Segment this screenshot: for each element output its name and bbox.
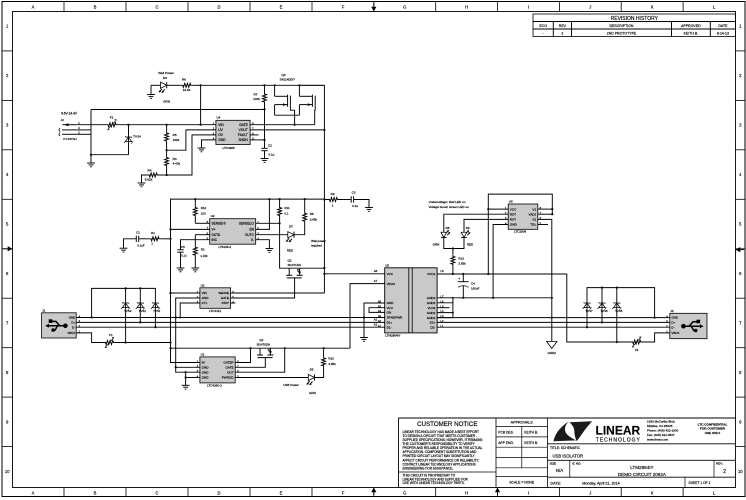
junction: [169, 238, 171, 240]
svg-text:CTL: CTL: [202, 301, 208, 305]
svg-text:R13: R13: [458, 256, 464, 260]
svg-text:R10: R10: [328, 357, 334, 361]
svg-text:R9: R9: [331, 192, 335, 196]
border row ticks: [2, 50, 13, 52]
svg-text:TVS4: TVS4: [133, 135, 141, 139]
svg-text:GND: GND: [671, 316, 677, 320]
wire C3 to gnd: [354, 200, 369, 208]
svg-text:IN: IN: [202, 361, 205, 365]
wire U1 gnd pin2: [176, 366, 200, 368]
size row grid: [548, 476, 736, 478]
svg-text:R3: R3: [173, 157, 177, 161]
svg-text:U4: U4: [217, 116, 221, 120]
svg-text:8-14-13: 8-14-13: [717, 32, 729, 36]
wire U1 PWRGD to D5: [235, 377, 308, 379]
svg-text:D2+: D2+: [430, 321, 436, 325]
svg-text:H: H: [465, 5, 468, 10]
svg-text:A: A: [32, 5, 35, 10]
junction: [185, 376, 187, 378]
resistor R6: [181, 83, 194, 87]
svg-text:S4214DDY: S4214DDY: [280, 78, 295, 82]
wire D6 to R6: [166, 84, 180, 86]
svg-text:LTC4360-2: LTC4360-2: [207, 383, 222, 387]
wire A6 gnd: [364, 303, 385, 338]
svg-text:LTC CONFIDENTIAL: LTC CONFIDENTIAL: [698, 422, 728, 426]
svg-text:TVS3: TVS3: [124, 309, 132, 313]
svg-text:F: F: [342, 491, 345, 496]
svg-text:GND: GND: [69, 316, 75, 320]
junction: [452, 247, 454, 249]
junction: [194, 198, 196, 200]
svg-text:D-: D-: [671, 325, 674, 329]
svg-text:C2: C2: [268, 144, 272, 148]
svg-text:U5: U5: [385, 263, 389, 267]
wire GND2 to J3 rail: [437, 317, 670, 319]
svg-text:GND2: GND2: [548, 351, 557, 355]
resistor R9: [324, 198, 342, 202]
title block outline: [399, 417, 736, 419]
junction: [323, 273, 325, 275]
svg-text:J: J: [589, 5, 591, 10]
junction: [298, 84, 300, 86]
svg-text:SENSEHI: SENSEHI: [212, 222, 226, 226]
wire U6 VCC pin: [488, 208, 508, 210]
svg-text:A7: A7: [374, 279, 378, 283]
svg-text:K: K: [651, 5, 654, 10]
resistor R4: [146, 173, 160, 177]
wire R6 to rail: [193, 84, 201, 86]
junction: [139, 321, 141, 323]
junction: [551, 208, 553, 210]
ground for D6: [150, 85, 152, 94]
wire J2 gnd drop: [76, 129, 91, 131]
junction: [169, 347, 171, 349]
ground for U1: [182, 384, 190, 386]
svg-text:FAULT: FAULT: [238, 133, 248, 137]
svg-text:H: H: [465, 491, 468, 496]
junction: [268, 198, 270, 200]
junction: [169, 292, 171, 294]
svg-text:DEMO CIRCUIT 2092A: DEMO CIRCUIT 2092A: [618, 472, 667, 477]
wire EN riser: [256, 199, 270, 229]
svg-text:LINEAR: LINEAR: [596, 423, 641, 437]
svg-text:SENSELO: SENSELO: [239, 222, 255, 226]
svg-text:USE ONLY: USE ONLY: [705, 431, 721, 435]
wire U1 OUT riser: [235, 348, 285, 372]
center mark bottom: [373, 491, 375, 495]
svg-text:OUTC: OUTC: [245, 233, 255, 237]
op-amp U4 body: [216, 120, 250, 144]
wire U2 GND drop: [176, 298, 200, 318]
junction: [452, 297, 454, 299]
junction: [263, 108, 265, 110]
wire U4 VOUT rail: [250, 129, 324, 131]
svg-text:VBUS: VBUS: [387, 282, 395, 286]
junction: [323, 267, 325, 269]
junction: [586, 326, 588, 328]
svg-text:I: I: [528, 491, 529, 496]
junction: [139, 287, 141, 289]
wire D- rail: [76, 326, 385, 328]
svg-text:KEITH B.: KEITH B.: [524, 441, 538, 445]
svg-text:2: 2: [723, 469, 726, 475]
wire A7 riser: [350, 284, 385, 349]
svg-text:100: 100: [201, 212, 206, 216]
wire VLO2 stub: [437, 307, 449, 309]
svg-text:SCALE = NONE: SCALE = NONE: [509, 481, 535, 485]
tvs TVS5: [616, 288, 618, 300]
svg-text:Phone: (408) 432-1900: Phone: (408) 432-1900: [647, 428, 679, 432]
svg-text:TVS6: TVS6: [600, 309, 608, 313]
svg-text:LTC4412: LTC4412: [209, 309, 221, 313]
LED D8: [441, 232, 447, 237]
svg-text:GND: GND: [202, 376, 210, 380]
wire A8 rail: [324, 273, 384, 275]
tvs TVS7: [586, 300, 588, 308]
svg-text:Wall Power: Wall Power: [158, 71, 174, 75]
resistor R2: [194, 235, 196, 246]
wire OV tap: [167, 135, 216, 175]
svg-text:C1: C1: [136, 231, 140, 235]
resistor R12: [194, 199, 196, 205]
center mark left: [3, 248, 8, 250]
transistor Q2 body: [288, 268, 290, 275]
svg-text:R8: R8: [310, 212, 314, 216]
svg-text:B: B: [94, 491, 97, 496]
wire U4 FAULT stub: [250, 134, 258, 136]
wire U1 GATEP riser: [235, 348, 250, 362]
capacitor C5: [177, 249, 183, 251]
svg-text:REVISION HISTORY: REVISION HISTORY: [611, 16, 659, 22]
resistor R8: [304, 199, 306, 211]
wire sense top rail: [171, 199, 325, 348]
wire GND2 pin ties: [437, 303, 453, 313]
fuse F2: [103, 123, 121, 127]
svg-text:CUSTOMER NOTICE: CUSTOMER NOTICE: [417, 421, 477, 428]
wire U6 S1 TOL: [538, 219, 552, 297]
svg-text:A8: A8: [374, 269, 378, 273]
wire UV tap: [167, 130, 216, 150]
wire TVS top rail: [92, 288, 156, 317]
svg-text:F3: F3: [635, 348, 639, 352]
svg-text:TVS7: TVS7: [585, 309, 593, 313]
wire U6 GND pin: [493, 225, 508, 298]
svg-text:D2-: D2-: [430, 325, 435, 329]
junction: [179, 317, 181, 319]
junction: [492, 297, 494, 299]
svg-text:R1: R1: [151, 231, 155, 235]
svg-text:0.1u: 0.1u: [352, 204, 358, 208]
wire F1 to rail: [118, 342, 171, 344]
junction: [274, 84, 276, 86]
svg-text:OUT: OUT: [227, 370, 234, 374]
svg-text:D1+: D1+: [387, 321, 393, 325]
svg-text:PCB DES.: PCB DES.: [498, 431, 513, 435]
svg-text:4.42k: 4.42k: [173, 161, 181, 165]
connector J3: [670, 313, 707, 338]
svg-text:ON: ON: [387, 311, 392, 315]
svg-text:Undervoltage: Red LED on: Undervoltage: Red LED on: [429, 200, 466, 204]
wire U3 V- gnd: [256, 240, 270, 249]
wire Q3 source tie: [275, 114, 300, 116]
svg-text:GND: GND: [218, 138, 226, 142]
wire U1 IN feed: [171, 348, 200, 362]
svg-text:D6: D6: [163, 76, 167, 80]
connector J1: [42, 313, 77, 338]
wire J1 VBUS to F1: [76, 333, 101, 343]
svg-text:TVS1: TVS1: [153, 309, 161, 313]
svg-text:R5: R5: [173, 133, 177, 137]
svg-text:OV: OV: [218, 133, 224, 137]
svg-text:KEITH B.: KEITH B.: [684, 32, 699, 36]
svg-text:TITLE: SCHEMATIC: TITLE: SCHEMATIC: [550, 446, 581, 450]
svg-text:VIN: VIN: [218, 123, 224, 127]
center mark right: [740, 249, 745, 251]
svg-text:+: +: [458, 277, 460, 281]
op-amp U2 body: [200, 288, 231, 309]
svg-text:2ND PROTOTYPE: 2ND PROTOTYPE: [607, 32, 637, 36]
svg-text:APP ENG.: APP ENG.: [498, 441, 514, 445]
svg-text:F: F: [342, 5, 345, 10]
wire D2+ rail: [437, 321, 670, 323]
svg-text:SHEET 1 OF 1: SHEET 1 OF 1: [689, 481, 711, 485]
resistor R5: [166, 125, 168, 132]
wire VBUS rail: [171, 347, 351, 349]
customer notice box: [495, 418, 497, 488]
wire VCC trunk: [323, 85, 325, 293]
junction: [323, 198, 325, 200]
svg-text:SHDN: SHDN: [238, 138, 248, 142]
svg-text:V+: V+: [212, 228, 216, 232]
transistor Q1 body: [259, 348, 261, 355]
svg-text:DESCRIPTION: DESCRIPTION: [610, 24, 634, 28]
junction: [249, 347, 251, 349]
svg-text:GND2: GND2: [427, 296, 436, 300]
svg-text:RED: RED: [467, 242, 474, 246]
junction: [200, 84, 202, 86]
logo LT mark: [553, 421, 592, 441]
svg-text:TVS2: TVS2: [139, 309, 147, 313]
title row: [548, 459, 736, 461]
svg-text:INC: INC: [212, 238, 218, 242]
svg-text:GND: GND: [202, 296, 210, 300]
svg-text:R12: R12: [201, 206, 207, 210]
svg-text:S1: S1: [532, 218, 536, 222]
svg-text:RED: RED: [287, 249, 294, 253]
junction: [91, 316, 93, 318]
svg-text:GND2: GND2: [427, 301, 436, 305]
svg-text:R4: R4: [148, 168, 152, 172]
junction: [551, 297, 553, 299]
svg-text:Wall power: Wall power: [311, 239, 326, 243]
junction: [551, 213, 553, 215]
svg-text:10: 10: [738, 469, 743, 474]
svg-text:F2: F2: [110, 116, 114, 120]
svg-text:PJ-047AH: PJ-047AH: [63, 137, 76, 141]
junction: [601, 321, 603, 323]
junction: [279, 222, 281, 224]
svg-text:J1: J1: [42, 308, 45, 312]
svg-text:2: 2: [561, 32, 563, 36]
svg-text:D9: D9: [466, 226, 470, 230]
junction: [175, 316, 177, 318]
svg-text:SIZE: SIZE: [550, 462, 557, 466]
tvs TVS2: [139, 288, 141, 300]
svg-text:V-: V-: [251, 238, 254, 242]
svg-text:GND: GND: [202, 366, 210, 370]
svg-text:VADJ: VADJ: [529, 212, 537, 216]
junction: [125, 287, 127, 289]
ground for U5 gnd1: [360, 337, 368, 339]
wire SENSELO: [256, 222, 280, 224]
wire U6 RST3 to D9: [464, 219, 508, 232]
svg-text:VCC2: VCC2: [427, 272, 436, 276]
svg-text:D7: D7: [289, 224, 293, 228]
wire GND2 rail tie: [452, 298, 454, 303]
svg-text:VLO: VLO: [387, 306, 394, 310]
svg-text:UV: UV: [218, 128, 223, 132]
svg-text:REV: REV: [559, 24, 567, 28]
junction: [487, 208, 489, 210]
junction: [452, 273, 454, 275]
capacitor C1: [124, 239, 137, 248]
svg-text:APPROVED: APPROVED: [681, 24, 701, 28]
junction: [462, 297, 464, 299]
junction: [294, 124, 296, 126]
svg-text:0.1u: 0.1u: [269, 152, 275, 156]
svg-text:F1: F1: [109, 333, 113, 337]
svg-text:VOUT: VOUT: [239, 128, 248, 132]
resistor R11: [279, 199, 281, 205]
wire Q2 gate down: [231, 278, 295, 298]
logo box lines: [548, 443, 736, 445]
svg-text:ECO: ECO: [539, 24, 547, 28]
junction: [185, 371, 187, 373]
svg-text:Monday, April 21, 2014: Monday, April 21, 2014: [582, 481, 619, 485]
center mark top: [373, 3, 375, 8]
junction: [200, 124, 202, 126]
junction: [169, 228, 171, 230]
wire SENSELO to Q2 gate: [280, 223, 290, 268]
svg-text:www.linear.com: www.linear.com: [647, 437, 669, 441]
svg-text:LT6108-2: LT6108-2: [219, 245, 232, 249]
svg-text:GND2: GND2: [427, 316, 436, 320]
wire Q2 top tie: [289, 267, 324, 269]
junction: [125, 341, 127, 343]
svg-text:VCC: VCC: [510, 207, 517, 211]
svg-text:IC NO:: IC NO:: [572, 462, 581, 466]
svg-text:RST: RST: [510, 212, 516, 216]
svg-text:5.62k: 5.62k: [145, 178, 153, 182]
junction: [175, 366, 177, 368]
svg-text:A3: A3: [378, 314, 382, 318]
op-amp U6 body: [508, 204, 538, 229]
wire D5 to R10: [314, 368, 324, 378]
svg-text:N/A: N/A: [556, 468, 563, 473]
wire Q1 gate to U1: [235, 358, 265, 368]
svg-text:I: I: [528, 5, 529, 10]
svg-text:GATE: GATE: [239, 123, 249, 127]
junction: [616, 287, 618, 289]
wire R4 to gnd: [142, 175, 147, 183]
date row: [684, 477, 686, 487]
svg-text:LTM2884IY: LTM2884IY: [630, 465, 653, 470]
svg-text:R7: R7: [254, 92, 258, 96]
svg-text:GATEP: GATEP: [223, 361, 233, 365]
junction: [279, 198, 281, 200]
tvs TVS3: [125, 288, 127, 300]
wire U3 V+ to rail: [171, 228, 210, 230]
svg-text:KEITH B.: KEITH B.: [524, 431, 538, 435]
wire A5-A4 jumper: [369, 308, 385, 313]
wire U3 INC to C5: [181, 240, 210, 250]
svg-text:D: D: [217, 491, 220, 496]
svg-text:10: 10: [5, 469, 10, 474]
svg-text:SENSE: SENSE: [218, 291, 229, 295]
svg-text:Q1: Q1: [260, 338, 264, 342]
resistor R1: [139, 238, 148, 240]
junction: [452, 312, 454, 314]
svg-text:A: A: [32, 491, 35, 496]
svg-text:Q2: Q2: [288, 259, 292, 263]
svg-text:U1: U1: [201, 353, 205, 357]
svg-text:U2: U2: [201, 283, 205, 287]
wire U2 STAT stub: [231, 302, 236, 304]
svg-text:USB Power: USB Power: [283, 383, 299, 387]
svg-text:B: B: [94, 5, 97, 10]
svg-text:C: C: [155, 5, 158, 10]
svg-text:3.65k: 3.65k: [310, 218, 318, 222]
capacitor C4: [462, 274, 464, 282]
svg-text:D-: D-: [72, 325, 75, 329]
wire SENSE rail: [231, 292, 325, 294]
junction: [166, 124, 168, 126]
wire U3 OUTC to D7: [256, 234, 288, 236]
svg-text:SPNDPWR: SPNDPWR: [387, 316, 404, 320]
junction: [363, 316, 365, 318]
wire D+ rail: [76, 321, 385, 323]
svg-text:GND: GND: [202, 370, 210, 374]
junction: [263, 139, 265, 141]
svg-text:VLO2: VLO2: [427, 306, 435, 310]
svg-text:E: E: [280, 491, 283, 496]
svg-text:GND: GND: [387, 301, 395, 305]
svg-text:D+: D+: [71, 321, 75, 325]
wire R7 to C2: [264, 109, 266, 148]
wire U3 OUTA to R2: [195, 234, 209, 236]
svg-text:0.1uF: 0.1uF: [137, 243, 145, 247]
svg-text:A1: A1: [378, 324, 382, 328]
svg-text:C3: C3: [352, 190, 356, 194]
tvs TVS1: [154, 300, 156, 308]
svg-text:C4: C4: [471, 282, 475, 286]
svg-text:J: J: [589, 491, 591, 496]
svg-text:GRN: GRN: [433, 242, 440, 246]
svg-text:D8: D8: [446, 226, 450, 230]
junction: [654, 317, 656, 319]
svg-text:G: G: [403, 5, 406, 10]
wire U6 VCC net: [488, 194, 552, 274]
ground for U4: [198, 147, 206, 149]
wire U1 gnd pin4 drop: [185, 372, 187, 385]
svg-text:OUTA: OUTA: [212, 233, 221, 237]
svg-text:D: D: [217, 5, 220, 10]
wire GND1 rail: [76, 317, 385, 319]
svg-text:USB ISOLATOR: USB ISOLATOR: [553, 454, 584, 459]
ground for C3: [365, 207, 373, 209]
svg-text:GATE: GATE: [221, 296, 229, 300]
resistor R7: [264, 85, 266, 91]
